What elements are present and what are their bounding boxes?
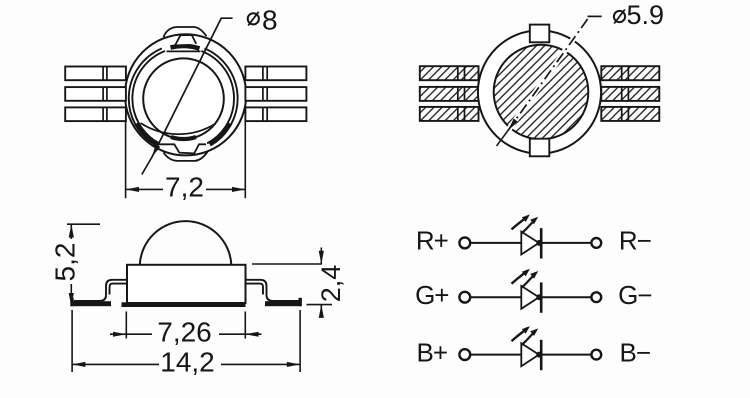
arrowhead down xyxy=(319,251,324,264)
lead bend marks right xyxy=(622,66,629,121)
leader centerline dash-dot xyxy=(508,16,590,130)
extension line left xyxy=(125,121,127,198)
svg-text:2,4: 2,4 xyxy=(316,265,346,303)
lens retaining ring outer right arc xyxy=(205,48,238,145)
terminal B- xyxy=(591,350,601,360)
dimension line xyxy=(72,363,300,365)
terminal R+ xyxy=(459,238,470,249)
lead L1 top-left xyxy=(65,67,126,81)
wire B+ to D3 xyxy=(470,354,521,356)
lens retaining ring outer left arc xyxy=(129,48,162,145)
svg-text:G+: G+ xyxy=(415,280,448,310)
dimension 2,4 xyxy=(252,248,332,318)
arrowhead down xyxy=(69,293,74,306)
extension tick right xyxy=(299,310,301,372)
value label ø8 xyxy=(248,4,278,35)
leader arrowhead xyxy=(152,144,160,157)
lead R3 bottom-right hatched xyxy=(601,107,659,121)
svg-text:14,2: 14,2 xyxy=(160,347,215,378)
ring top key bump xyxy=(176,35,197,45)
arrowhead right xyxy=(287,362,300,367)
LED D1 red xyxy=(512,214,543,258)
arrowhead left-pointing xyxy=(245,332,258,337)
svg-text:8: 8 xyxy=(262,4,278,35)
svg-text:R+: R+ xyxy=(416,226,448,256)
extension line top xyxy=(252,263,322,265)
svg-text:7,2: 7,2 xyxy=(165,172,204,203)
leader halo xyxy=(508,23,585,131)
body base thick line xyxy=(122,302,246,307)
leader line xyxy=(152,18,233,157)
dimension 5,2 xyxy=(67,224,100,306)
terminal B+ xyxy=(459,349,470,360)
dimension line xyxy=(110,333,262,335)
lead L2 mid-left xyxy=(65,87,126,101)
extension line top xyxy=(67,223,100,225)
extension line bottom xyxy=(307,304,333,306)
terminal R- xyxy=(591,238,601,248)
dimension leader for slug diameter xyxy=(497,16,602,146)
lens bottom thick edge xyxy=(171,137,196,139)
value label ø5.9 xyxy=(614,0,664,30)
dimension 7,2 xyxy=(126,121,246,198)
left lead toe xyxy=(70,298,73,306)
ring top chord xyxy=(167,50,201,52)
dimension leader for lens diameter xyxy=(142,18,233,174)
ring thick arc bottom-left xyxy=(137,123,157,144)
body bottom key tab xyxy=(164,152,208,161)
lead R3 bottom-right xyxy=(245,107,306,121)
body top key tab xyxy=(164,27,207,37)
dimension line xyxy=(126,188,246,190)
lead L3 bottom-left hatched xyxy=(420,107,479,121)
svg-text:R−: R− xyxy=(619,226,651,256)
lead bend marks right xyxy=(263,67,267,122)
lead bend marks left xyxy=(103,67,107,122)
wire D1 to R- xyxy=(541,242,591,244)
left lead foot xyxy=(71,301,112,306)
terminal G- xyxy=(591,292,601,302)
arrowhead up xyxy=(319,305,324,318)
right lead foot xyxy=(265,301,302,306)
lead R2 mid-right xyxy=(245,87,306,101)
LED D2 green xyxy=(512,269,543,313)
right lead gullwing xyxy=(246,280,299,301)
svg-text:7,26: 7,26 xyxy=(157,317,212,348)
arrowhead right xyxy=(232,187,245,192)
ring thick arc top xyxy=(171,46,200,49)
lead L3 bottom-left xyxy=(65,107,126,121)
lens circle xyxy=(143,58,224,139)
ring bottom notch xyxy=(157,144,207,153)
svg-text:B−: B− xyxy=(620,337,651,367)
svg-text:5,2: 5,2 xyxy=(49,243,80,282)
top key tab xyxy=(530,25,550,43)
extension line right xyxy=(244,121,246,198)
arrowhead up xyxy=(69,224,74,237)
dimension 14,2 xyxy=(72,310,300,372)
left lead gullwing xyxy=(74,280,127,301)
package body xyxy=(127,265,246,303)
wire G+ to D2 xyxy=(470,296,521,298)
arrowhead right-pointing xyxy=(113,332,126,337)
lens retaining ring inner left arc xyxy=(132,51,165,143)
dimension line segments xyxy=(320,248,322,318)
dimension 7,26 xyxy=(110,312,262,339)
lead R1 top-right hatched xyxy=(601,66,659,80)
package body outline xyxy=(125,34,246,155)
ring thick arc bottom-right xyxy=(210,123,230,144)
leader tail xyxy=(497,131,509,147)
extension tick right xyxy=(244,312,246,339)
arrowhead left xyxy=(72,362,85,367)
leader arrowhead xyxy=(508,119,518,131)
dimension line segments xyxy=(70,224,72,306)
svg-text:5.9: 5.9 xyxy=(627,0,665,30)
svg-text:G−: G− xyxy=(618,280,651,310)
wire D3 to B- xyxy=(541,354,591,356)
svg-text:B+: B+ xyxy=(417,337,448,367)
leader tail xyxy=(142,157,152,175)
lead L2 mid-left hatched xyxy=(420,87,479,101)
lead R1 top-right xyxy=(245,67,306,81)
arrowhead left xyxy=(126,187,139,192)
extension tick left xyxy=(125,312,127,339)
lens inner shallow arc xyxy=(141,123,216,134)
lead R2 mid-right hatched xyxy=(601,87,659,101)
wire R+ to D1 xyxy=(470,242,521,244)
wire D2 to G- xyxy=(541,296,591,298)
slug hatched circle xyxy=(494,45,589,140)
terminal G+ xyxy=(459,292,470,303)
bottom key tab xyxy=(530,139,550,157)
package body circle xyxy=(478,30,601,153)
LED D3 blue xyxy=(512,326,543,370)
lead bend marks left xyxy=(458,66,465,121)
extension tick left xyxy=(71,310,73,372)
lens dome xyxy=(140,221,232,265)
right lead toe xyxy=(299,298,302,306)
lead L1 top-left hatched xyxy=(420,66,479,80)
lens retaining ring inner right arc xyxy=(201,51,234,143)
